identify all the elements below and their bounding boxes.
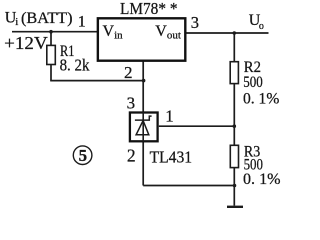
svg-text:0. 1%: 0. 1% — [243, 171, 281, 188]
svg-text:3: 3 — [191, 13, 199, 32]
svg-text:0. 1%: 0. 1% — [243, 90, 279, 107]
svg-text:1: 1 — [165, 107, 174, 126]
svg-text:TL431: TL431 — [150, 148, 193, 167]
svg-text:5: 5 — [79, 146, 88, 165]
svg-text:1: 1 — [78, 14, 86, 31]
svg-text:3: 3 — [127, 93, 136, 112]
svg-text:+12V: +12V — [4, 33, 48, 53]
svg-text:(BATT): (BATT) — [21, 10, 73, 27]
svg-text:8. 2k: 8. 2k — [60, 56, 90, 75]
svg-text:LM78* *: LM78* * — [120, 0, 178, 18]
svg-text:i: i — [15, 16, 18, 28]
svg-text:500: 500 — [243, 74, 263, 91]
svg-text:o: o — [259, 21, 264, 32]
svg-text:2: 2 — [127, 145, 136, 165]
svg-text:2: 2 — [124, 63, 133, 82]
